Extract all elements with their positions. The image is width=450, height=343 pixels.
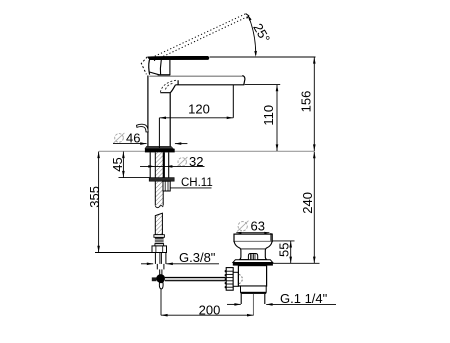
pop-up rod through counter — [150, 152, 169, 177]
svg-text:45: 45 — [110, 157, 125, 171]
raised lever dashed nose — [141, 57, 147, 74]
svg-text:156: 156 — [298, 91, 313, 113]
dimension 355 — [87, 152, 102, 253]
drain flange top slab — [233, 260, 273, 263]
svg-text:110: 110 — [261, 105, 276, 126]
dimension 240 — [300, 152, 316, 264]
dimension 45 — [110, 152, 125, 178]
spout inner hidden arcs (dashed) — [160, 80, 176, 92]
label 25 degrees — [250, 21, 273, 46]
extension line 45 bottom — [119, 177, 150, 179]
extension line faucet axis vertical — [158, 118, 160, 148]
drain knob — [248, 254, 257, 260]
label G.1 1/4" — [227, 291, 336, 306]
band below ribs — [155, 244, 164, 246]
label CH.11 — [170, 177, 212, 189]
svg-text:200: 200 — [199, 302, 221, 317]
drain knurled adjuster wheel — [225, 268, 234, 291]
drain pull rod hook — [137, 124, 149, 132]
locking flange under counter — [149, 178, 174, 182]
spout top tangent line (gray) — [149, 75, 242, 77]
drain body — [238, 266, 266, 286]
rod end loop below ball — [159, 283, 163, 289]
dimension 55 — [276, 241, 292, 263]
label diameter 46 — [113, 131, 187, 146]
dimension 110 — [261, 85, 278, 151]
drain center line — [252, 294, 254, 315]
wheel hub — [233, 272, 238, 286]
svg-text:63: 63 — [251, 219, 265, 234]
faucet lever bar — [148, 56, 209, 59]
svg-text:240: 240 — [300, 192, 315, 214]
hex nut — [152, 246, 167, 253]
washer band — [154, 235, 165, 238]
extension line 355 bottom — [95, 252, 152, 254]
cartridge bonnet — [158, 60, 171, 76]
svg-text:G.3/8": G.3/8" — [179, 250, 216, 265]
drain bottom black line — [241, 292, 267, 294]
dimension 156 — [298, 57, 315, 151]
extension line flange to 240 — [269, 262, 320, 264]
counter reference line — [99, 150, 314, 152]
drain neck — [234, 242, 272, 260]
pop-up linkage ball joint — [152, 274, 165, 283]
svg-text:355: 355 — [87, 186, 102, 208]
raised lever dotted lines — [152, 14, 247, 61]
ribbed connector — [155, 237, 164, 243]
extension line lever top — [210, 56, 316, 58]
svg-text:CH.11: CH.11 — [181, 177, 213, 189]
extension line rod to 200 — [160, 289, 162, 315]
drain plug cap — [234, 234, 272, 241]
25 degree arc — [248, 15, 257, 57]
dimension 200 — [161, 302, 254, 317]
extension line spout bottom — [245, 84, 281, 86]
drain flange black slab — [233, 263, 273, 266]
drain body bottom slab — [241, 286, 267, 292]
extension line spout outlet vertical — [232, 85, 234, 118]
body and spout outline — [148, 76, 245, 147]
label diameter 63 — [236, 219, 269, 234]
handle front edge — [149, 58, 150, 75]
raised lever solid tip — [246, 14, 249, 19]
svg-text:55: 55 — [276, 243, 291, 257]
label G.3/8" — [141, 250, 219, 265]
threaded shank upper (hatched) — [155, 152, 163, 207]
base flare — [145, 146, 174, 148]
svg-text:120: 120 — [188, 102, 210, 117]
lever nose underside — [149, 72, 158, 75]
threaded shank lower (hatched) — [155, 213, 162, 235]
base plate — [145, 149, 175, 153]
horizontal linkage rod — [165, 277, 226, 280]
dimension 120 — [159, 102, 233, 120]
label diameter 32 — [140, 154, 205, 169]
G3/8 tailpiece tubes — [155, 253, 166, 264]
extension line 63 right corner — [270, 233, 272, 241]
svg-text:G.1 1/4": G.1 1/4" — [280, 291, 328, 306]
extension line cap bottom to 55 — [272, 240, 294, 242]
tube below G3/8 line — [157, 264, 164, 275]
CH.11 nut tube — [163, 181, 170, 191]
drain tailpipe — [241, 294, 265, 304]
